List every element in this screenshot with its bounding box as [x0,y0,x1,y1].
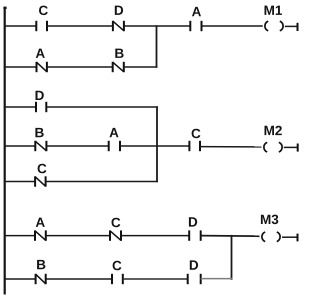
wire A to C rung3 [46,235,110,237]
contact D (NO) rung3 branch [188,274,201,284]
right stub rung1 [297,23,299,31]
wire rung3 rail to A [4,235,35,237]
wire C to D rung3 [121,235,189,237]
label B rung2 [35,128,43,137]
label A rung3 [36,218,45,227]
contact D (NO) rung3 [189,230,201,240]
wire B to junction J1 [124,66,158,68]
contact C (NO) rung1 [36,21,47,31]
label C rung3 branch [113,261,122,271]
wire C to D rung3 branch [123,278,188,280]
label B branch1 [115,49,123,58]
label A branch1 [36,49,45,58]
wire D through J3 to coil M3 [201,235,260,238]
wire coil M3 to right stub [282,236,298,238]
coil M1 [265,21,283,31]
label A rung1 [192,7,201,16]
contact B (NC) branch1 [113,62,124,72]
wire C to D rung1 [47,25,113,27]
contact C (NO) rung2 right [189,141,200,151]
wire D to junction J3 [201,278,232,280]
wire rung3 branch rail to B [4,278,36,280]
contact A (NC) rung3 [35,230,46,240]
wire rung2 rail to B [4,145,35,147]
wire coil M2 to right stub [284,146,298,148]
contact B (NC) rung3 branch [36,274,46,284]
contact C (NO) rung3 branch [112,274,123,284]
wire B to C rung3 branch [46,278,112,280]
wire C to coil M2 [200,146,262,148]
left power rail [3,7,6,295]
junction J1 vertical rung1 [156,25,158,67]
wire C to junction J2 bottom [46,181,158,183]
label C rung2 right [192,129,201,139]
wire B to A rung2 [46,145,108,147]
contact D (NC) rung1 [113,21,124,31]
right stub rung3 [297,234,299,242]
label M3 [261,215,278,225]
wire rung2 branch C rail to C [4,181,35,183]
label M1 [265,6,283,15]
label A rung2 [110,128,119,137]
label C rung2 branch [38,164,47,174]
wire branch1 rail to A [4,66,37,68]
contact C (NC) rung3 [110,230,121,240]
label D rung3 [189,217,197,226]
contact C (NC) rung2 branch [35,176,46,186]
wire A to B branch1 [47,66,113,68]
contact A (NO) rung2 [109,141,120,151]
coil M2 [264,142,282,152]
junction J3 vertical rung3 [231,235,233,280]
wire coil M1 to right stub [285,25,298,27]
label M2 [265,126,282,135]
label D rung2 [36,91,44,100]
wire rung2 branch D rail to D [4,106,36,108]
contact A (NC) branch1 [37,62,47,72]
wire rung1 rail to C [4,25,36,27]
coil M3 [262,232,280,242]
contact D (NO) rung2 [36,102,46,112]
contact A (NO) rung1 [190,21,201,31]
label C rung1 [39,6,48,16]
wire A through J2 to C rung2 [120,145,189,147]
junction J2 vertical rung2 [156,106,158,182]
label C rung3 [112,218,121,228]
wire D to A rung1 [124,25,190,27]
contact B (NC) rung2 [35,141,46,151]
wire D to junction J2 [46,106,158,108]
label B rung3 branch [37,260,45,269]
right stub rung2 [297,144,299,152]
label D rung3 branch [190,260,198,269]
label D rung1 [115,6,123,15]
wire A to coil M1 [202,25,263,27]
